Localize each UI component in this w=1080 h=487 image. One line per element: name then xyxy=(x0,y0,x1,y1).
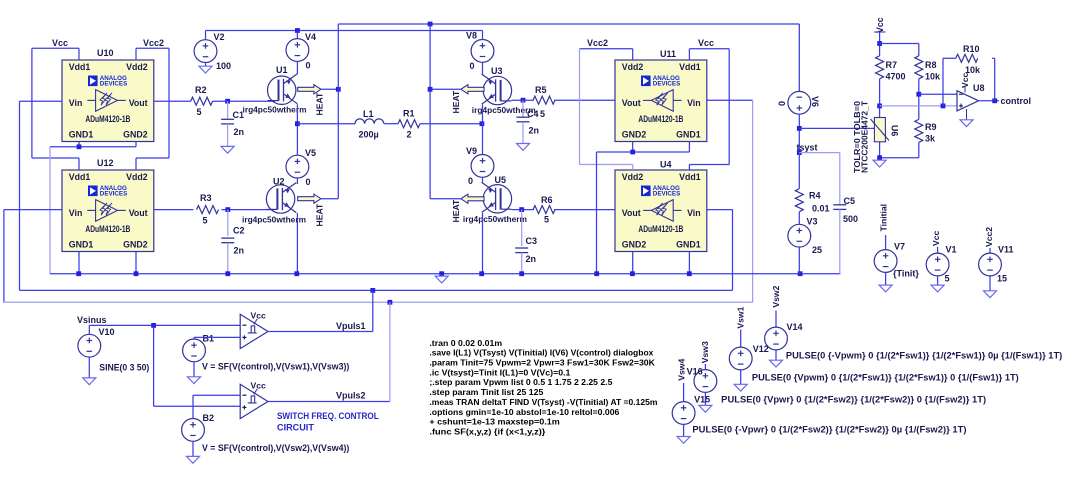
wire V10 down xyxy=(88,357,90,378)
svg-text:.param Tinit=75 Vpwm=2 Vpwr=3: .param Tinit=75 Vpwm=2 Vpwr=3 Fsw1=30K F… xyxy=(429,358,655,368)
wire V1 down xyxy=(937,276,939,285)
ground B1 xyxy=(188,377,201,384)
comment switch freq control xyxy=(277,411,379,422)
wire U3 gate to R5 xyxy=(512,99,534,101)
wire U10 GND2 down xyxy=(135,142,137,147)
value V10 SINE xyxy=(99,362,149,372)
svg-text:V2: V2 xyxy=(214,32,225,42)
wire R1 to phase right xyxy=(420,123,483,125)
svg-text:Vout: Vout xyxy=(622,208,641,218)
svg-text:Vsw2: Vsw2 xyxy=(771,285,781,307)
svg-text:15: 15 xyxy=(997,274,1007,284)
svg-text:DEVICES: DEVICES xyxy=(100,191,128,198)
wire U12 Vdd2 stub xyxy=(135,158,137,170)
svg-text:5: 5 xyxy=(203,216,208,226)
svg-text:0: 0 xyxy=(306,177,311,187)
svg-text:Vin: Vin xyxy=(69,208,83,218)
svg-text:R7: R7 xyxy=(886,60,898,70)
wire U6 node to opamp plus xyxy=(880,105,957,107)
flag tick Vcc xyxy=(874,31,886,33)
value V2 100 xyxy=(216,61,231,71)
voltage source B2 xyxy=(182,419,205,442)
svg-text:U5: U5 xyxy=(495,175,507,185)
svg-text:Vsw4: Vsw4 xyxy=(676,359,686,381)
value V6 0 xyxy=(777,101,787,106)
svg-text:C2: C2 xyxy=(233,226,245,236)
svg-text:Vsw1: Vsw1 xyxy=(735,306,745,328)
svg-text:U10: U10 xyxy=(97,48,114,58)
junction R3/C2 xyxy=(225,207,230,212)
svg-text:PULSE(0 {Vpwr} 0 {1/(2*Fsw2)}: PULSE(0 {Vpwr} 0 {1/(2*Fsw2)} {1/(2*Fsw2… xyxy=(721,394,986,404)
wire U11 GND2 down xyxy=(632,142,634,153)
transistor U2 (IGBT irg4pc50wtherm) xyxy=(266,183,296,214)
wire V16 down xyxy=(704,392,706,405)
svg-text:U4: U4 xyxy=(660,160,672,170)
label V9 xyxy=(466,146,477,156)
node Vpuls1 xyxy=(336,321,366,331)
wire R7 to U6 xyxy=(879,79,881,118)
label V11 xyxy=(998,245,1014,255)
wire main ground bus xyxy=(50,273,841,275)
svg-text:Vin: Vin xyxy=(687,98,701,108)
svg-text:V6: V6 xyxy=(810,96,820,107)
svg-text:R1: R1 xyxy=(403,109,415,119)
svg-text:ADuM4120-1B: ADuM4120-1B xyxy=(638,114,683,124)
wire U8 output xyxy=(979,100,999,102)
svg-text:U3: U3 xyxy=(491,66,503,76)
junction U11 GND2 xyxy=(630,150,635,155)
voltage source V10 xyxy=(78,334,101,357)
svg-text:V12: V12 xyxy=(753,344,769,354)
junction U6 bottom xyxy=(877,155,882,160)
svg-text:DEVICES: DEVICES xyxy=(100,81,128,88)
label U2 xyxy=(273,177,285,187)
thermal pin HEAT U3 xyxy=(461,85,484,94)
svg-text:0: 0 xyxy=(468,176,473,186)
junction bus U12 GND2 xyxy=(134,271,139,276)
junction bus U12 GND1 xyxy=(76,271,81,276)
wire C5 down to bus xyxy=(839,209,841,273)
wire Vcc2 vertical xyxy=(168,48,170,158)
svg-text:5: 5 xyxy=(197,107,202,117)
svg-text:500: 500 xyxy=(843,214,858,224)
ground thermistor xyxy=(873,160,886,167)
comment circuit xyxy=(277,422,314,433)
label U5 xyxy=(495,175,507,185)
node Vcc2 flag right xyxy=(587,38,608,48)
value V1 5 xyxy=(945,274,950,284)
value V16 PULSE xyxy=(721,394,986,404)
svg-text:HEAT: HEAT xyxy=(451,199,461,223)
wire U3 emitter to V9 xyxy=(482,105,484,155)
wire feedback top xyxy=(992,57,995,59)
wire to C4 xyxy=(522,100,524,117)
resistor R9 xyxy=(915,119,937,143)
svg-text:ADuM4120-1B: ADuM4120-1B xyxy=(85,114,130,124)
svg-text:2: 2 xyxy=(407,130,412,140)
value V11 15 xyxy=(997,274,1007,284)
wire R3 to U2 gate xyxy=(222,209,276,211)
svg-text:irg4pc50wtherm: irg4pc50wtherm xyxy=(242,215,306,225)
wire U10 Vdd2 up xyxy=(135,48,137,60)
svg-text:GND2: GND2 xyxy=(622,240,647,250)
wire feedback up xyxy=(994,58,996,101)
resistor R7 xyxy=(876,56,906,82)
voltage source V14 xyxy=(765,327,788,350)
wire V7 down xyxy=(885,272,887,285)
wire U1 heat to bus xyxy=(321,88,339,90)
wire B1 to plus input xyxy=(194,336,240,338)
junction Vpuls2/B2 xyxy=(388,300,393,305)
wire feedback down xyxy=(942,58,944,106)
svg-text:Vcc: Vcc xyxy=(52,38,68,48)
wire thermal bus top xyxy=(338,23,799,25)
wire C4 down xyxy=(522,122,524,144)
wire Vcc right vertical xyxy=(728,49,730,165)
wire V8 to U3 xyxy=(482,62,484,74)
svg-text:Vdd1: Vdd1 xyxy=(679,172,701,182)
transistor U5 (IGBT irg4pc50wtherm) xyxy=(482,182,512,213)
junction V6/U6 xyxy=(797,126,802,131)
wire Vcc horizontal xyxy=(32,47,79,49)
node Vsw4 flag xyxy=(676,359,686,381)
wire V2 bottom xyxy=(205,63,207,67)
wire U12 Vin xyxy=(4,209,62,211)
wire U5 emitter down xyxy=(482,213,484,274)
label V14 xyxy=(787,322,803,332)
label V10 xyxy=(99,327,115,337)
svg-text:V15: V15 xyxy=(694,394,710,404)
resistor R6 xyxy=(533,195,555,225)
label V7 xyxy=(894,242,905,252)
wire to C3 xyxy=(521,210,523,247)
node Tinitial flag xyxy=(879,204,889,232)
wire U12 Vout to R3 xyxy=(154,209,194,211)
label U1 xyxy=(276,65,288,75)
node Vcc flag U8 xyxy=(960,72,970,88)
value V4 0 xyxy=(306,61,311,71)
wire Vcc2 to U4 xyxy=(580,164,633,166)
svg-text:Vsinus: Vsinus xyxy=(77,315,107,325)
wire C5 top xyxy=(839,153,841,204)
svg-text:Vcc: Vcc xyxy=(698,38,714,48)
wire thermal vertical left xyxy=(337,24,339,199)
wire Vsinus down xyxy=(153,325,155,406)
wire U12 GND1 down xyxy=(78,252,80,274)
wire V4 to U1 collector xyxy=(296,61,298,74)
svg-text:V8: V8 xyxy=(466,31,477,41)
svg-text:R8: R8 xyxy=(925,60,937,70)
junction bus U11 gnd xyxy=(594,271,599,276)
voltage source V15 xyxy=(672,402,695,425)
wire Vpuls2 up xyxy=(389,302,391,401)
wire R2 to U1 gate xyxy=(213,100,276,102)
wire Vpuls1 output xyxy=(268,331,373,333)
wire U4 Vin right xyxy=(707,209,733,211)
junction Vpuls1/B1 xyxy=(370,288,375,293)
svg-text:C4: C4 xyxy=(527,109,539,119)
transistor U3 (IGBT irg4pc50wtherm) xyxy=(482,74,512,105)
wire B2 down xyxy=(192,441,194,456)
wire Vpuls2 left vertical xyxy=(3,210,5,303)
inductor L1 xyxy=(355,109,384,140)
voltage source B1 xyxy=(183,339,206,362)
voltage source V3 xyxy=(788,224,811,247)
label U8 xyxy=(973,83,985,93)
wire R9 bottom xyxy=(918,142,920,157)
svg-text:CIRCUIT: CIRCUIT xyxy=(277,422,314,433)
value U5 irg4pc50wtherm xyxy=(463,214,527,224)
junction bus U4 GND1 xyxy=(687,271,692,276)
junction bus U4 GND2 xyxy=(630,271,635,276)
resistor R10 xyxy=(956,44,981,75)
wire U12 GND2 down xyxy=(135,252,137,274)
wire U11 Vdd2 up xyxy=(632,49,634,60)
wire V5 to U2 collector xyxy=(296,178,298,184)
value U1 irg4pc50wtherm xyxy=(243,105,307,115)
svg-text:U8: U8 xyxy=(973,83,985,93)
junction phase left xyxy=(295,121,300,126)
svg-text:V7: V7 xyxy=(894,242,905,252)
wire V14 down xyxy=(775,350,777,360)
label HEAT U2 xyxy=(315,203,325,227)
wire Vpuls1 line xyxy=(20,289,733,291)
label HEAT U1 xyxy=(315,92,325,116)
wire U6 bottom stub xyxy=(879,142,881,158)
value V7 Tinit xyxy=(893,269,919,279)
label U10 xyxy=(97,48,114,58)
wire U4 Vdd2 stub xyxy=(632,165,634,171)
svg-text:C5: C5 xyxy=(844,196,856,206)
svg-text:V3: V3 xyxy=(807,217,818,227)
wire Vsw2 stub xyxy=(775,311,777,328)
wire DC bus top xyxy=(206,30,483,32)
wire Vpuls1 left vertical xyxy=(19,101,21,290)
wire Vcc2 right vertical xyxy=(579,49,581,165)
wire B1 down xyxy=(193,362,195,377)
node Vcc flag V1 xyxy=(931,230,941,246)
wire R8 top stub xyxy=(918,44,920,56)
svg-text:R5: R5 xyxy=(535,85,547,95)
wire Vpuls2 right vertical xyxy=(752,100,754,302)
junction bus U2 emitter xyxy=(294,271,299,276)
svg-text:SWITCH FREQ. CONTROL: SWITCH FREQ. CONTROL xyxy=(277,411,379,422)
svg-text:DEVICES: DEVICES xyxy=(653,191,681,198)
svg-text:DEVICES: DEVICES xyxy=(653,81,681,88)
svg-text:0: 0 xyxy=(777,101,787,106)
svg-text:10k: 10k xyxy=(965,65,981,75)
wire to C1 xyxy=(227,101,229,119)
svg-text:Vcc: Vcc xyxy=(931,230,941,246)
junction bus bus ground xyxy=(439,271,444,276)
wire Vcc to U4 Vdd1 xyxy=(689,164,729,166)
svg-text:25: 25 xyxy=(812,245,822,255)
node Vsw1 flag xyxy=(735,306,745,328)
svg-text:V14: V14 xyxy=(787,322,803,332)
resistor R4 xyxy=(795,189,829,214)
svg-text:U12: U12 xyxy=(97,158,114,168)
svg-text:Vcc2: Vcc2 xyxy=(984,227,994,247)
label V6 xyxy=(810,96,820,107)
wire R8 to R9 xyxy=(918,79,920,120)
value U3 irg4pc50wtherm xyxy=(472,105,536,115)
svg-text:Vdd2: Vdd2 xyxy=(622,62,644,72)
svg-text:HEAT: HEAT xyxy=(315,92,325,116)
ground B2 xyxy=(187,456,200,463)
spice directives text block xyxy=(429,338,657,437)
voltage source V5 xyxy=(286,155,309,178)
svg-text:.func SF(x,y,z) {if (x<1,y,z): .func SF(x,y,z) {if (x<1,y,z)} xyxy=(429,426,546,436)
svg-text:Tinitial: Tinitial xyxy=(879,204,889,232)
label V2 xyxy=(214,32,225,42)
svg-text:GND2: GND2 xyxy=(622,130,647,140)
junction bus V3 xyxy=(798,271,803,276)
voltage source V2 xyxy=(194,40,217,63)
wire V15 down xyxy=(683,424,685,436)
wire Vcc2 to U12 Vdd2 xyxy=(136,157,169,159)
wire R6 to U4 Vout xyxy=(554,209,614,211)
junction U3 heat xyxy=(428,87,433,92)
svg-text:U2: U2 xyxy=(273,177,285,187)
wire U10 Vdd1 up xyxy=(78,48,80,60)
svg-text:GND1: GND1 xyxy=(676,240,701,250)
svg-text:ADuM4120-1B: ADuM4120-1B xyxy=(85,224,130,234)
svg-text:V4: V4 xyxy=(305,32,316,42)
svg-text:10k: 10k xyxy=(925,72,941,82)
capacitor C5 xyxy=(833,196,858,224)
svg-text:Vin: Vin xyxy=(687,208,701,218)
svg-text:Vdd2: Vdd2 xyxy=(126,62,148,72)
svg-text:.options gmin=1e-10 abstol=1e-: .options gmin=1e-10 abstol=1e-10 reltol=… xyxy=(429,407,619,417)
svg-text:+ cshunt=1e-13 maxstep=0.1m: + cshunt=1e-13 maxstep=0.1m xyxy=(429,417,560,427)
svg-text:V = SF(V(control),V(Vsw1),V(Vs: V = SF(V(control),V(Vsw1),V(Vsw3)) xyxy=(202,362,349,372)
wire U10 gnd bus xyxy=(50,146,136,148)
svg-text:PULSE(0 {-Vpwr} 0 {1/(2*Fsw2)}: PULSE(0 {-Vpwr} 0 {1/(2*Fsw2)} {1/(2*Fsw… xyxy=(692,425,966,435)
thermal pin HEAT U1 xyxy=(298,85,321,94)
value V12 PULSE xyxy=(752,373,1019,383)
wire Vcc vertical left xyxy=(31,48,33,158)
wire R9 to U6 bottom xyxy=(880,157,919,159)
svg-text:V16: V16 xyxy=(687,367,703,377)
comparator A2 (Vpuls2) xyxy=(240,384,268,418)
wire B2 to minus input xyxy=(193,394,240,396)
wire U11 Vin right xyxy=(707,99,753,101)
svg-text:5: 5 xyxy=(544,215,549,225)
wire R10 left xyxy=(943,57,956,59)
wire U10 Vout to R2 xyxy=(154,100,191,102)
svg-text:C3: C3 xyxy=(526,236,538,246)
wire U4 GND1 down xyxy=(688,252,690,274)
ground main bus xyxy=(435,276,448,283)
label B2 xyxy=(203,413,215,423)
wire C1 down xyxy=(227,124,229,146)
wire U5 gate to R6 xyxy=(512,209,534,211)
value V5 0 xyxy=(306,177,311,187)
wire U12 Vdd1 stub xyxy=(78,158,80,170)
ground V10 xyxy=(83,378,96,385)
node Vcc flag right xyxy=(698,38,714,48)
voltage source V12 xyxy=(729,347,752,370)
svg-text:V1: V1 xyxy=(946,245,957,255)
svg-text:Vcc2: Vcc2 xyxy=(143,38,164,48)
wire Vcc2 stub V11 xyxy=(989,248,991,253)
wire thermal vertical right xyxy=(429,24,431,199)
svg-text:3k: 3k xyxy=(925,134,936,144)
wire V4 top stub xyxy=(296,31,298,39)
node Vcc flag comparator A1 xyxy=(251,310,267,320)
wire Vcc2 right horizontal xyxy=(580,48,633,50)
op-amp U11 (ADuM4120-1B gate driver) xyxy=(615,60,707,142)
wire U2 emitter down xyxy=(296,213,298,274)
node tsyst xyxy=(797,143,818,153)
junction Vsinus xyxy=(151,323,156,328)
wire V8 top stub xyxy=(482,31,484,40)
voltage source V16 xyxy=(694,370,717,393)
svg-text:GND1: GND1 xyxy=(69,130,94,140)
wire Vsw1 stub xyxy=(740,330,742,348)
svg-text:ADuM4120-1B: ADuM4120-1B xyxy=(638,224,683,234)
label V8 xyxy=(466,31,477,41)
resistor R8 xyxy=(915,56,941,82)
label V3 xyxy=(807,217,818,227)
node Vcc flag thermistor xyxy=(875,17,885,33)
wire V3 down to bus xyxy=(798,247,800,274)
svg-text:Vdd2: Vdd2 xyxy=(622,172,644,182)
svg-text:HEAT: HEAT xyxy=(451,90,461,114)
node Vsw2 flag xyxy=(771,285,781,307)
wire Vsinus to B1 minus xyxy=(89,324,240,326)
wire U11 gnd vertical xyxy=(596,152,598,274)
svg-text:Vcc: Vcc xyxy=(251,380,267,390)
wire Tinitial stub xyxy=(885,235,887,250)
svg-text:.meas TRAN deltaT FIND V(Tsyst: .meas TRAN deltaT FIND V(Tsyst) -V(Tinit… xyxy=(429,397,657,407)
svg-text:control: control xyxy=(1001,96,1032,106)
svg-text:.step param Tinit list 25 125: .step param Tinit list 25 125 xyxy=(429,387,543,397)
wire U3 heat to bus xyxy=(430,88,461,90)
label U11 xyxy=(660,49,676,59)
wire C2 down to bus xyxy=(227,243,229,274)
wire U4 Vdd1 stub xyxy=(688,165,690,171)
wire Vcc flag down xyxy=(879,32,881,56)
wire U10 GND1 down xyxy=(78,142,80,147)
svg-text:L1: L1 xyxy=(363,109,374,119)
svg-text:irg4pc50wtherm: irg4pc50wtherm xyxy=(463,214,527,224)
wire V9 to U5 xyxy=(482,177,484,183)
junction R5/C4 xyxy=(521,98,526,103)
node Vsw3 flag xyxy=(700,341,710,363)
wire U1 emitter to V5 xyxy=(296,104,298,155)
wire U10 Vin xyxy=(20,100,63,102)
ground V2 xyxy=(199,66,212,73)
junction feedback/plus xyxy=(941,104,946,109)
svg-text:GND1: GND1 xyxy=(676,130,701,140)
wire R4 to V3 xyxy=(798,212,800,224)
junction thermal bus xyxy=(428,22,433,27)
svg-text:R2: R2 xyxy=(195,85,207,95)
label V1 xyxy=(946,245,957,255)
svg-text:R10: R10 xyxy=(963,44,980,54)
resistor R5 xyxy=(533,85,555,119)
svg-text:Vpuls2: Vpuls2 xyxy=(336,391,366,401)
junction phase right xyxy=(480,121,485,126)
wire U11 GND1 down xyxy=(688,142,690,153)
capacitor C4 xyxy=(517,109,540,136)
svg-text:2n: 2n xyxy=(526,254,537,264)
node Vcc2 flag V11 xyxy=(984,227,994,247)
wire to C2 xyxy=(227,210,229,236)
wire Vcc2 horizontal xyxy=(136,47,169,49)
svg-text:PULSE(0 {Vpwm} 0 {1/(2*Fsw1)}: PULSE(0 {Vpwm} 0 {1/(2*Fsw1)} {1/(2*Fsw1… xyxy=(752,373,1019,383)
